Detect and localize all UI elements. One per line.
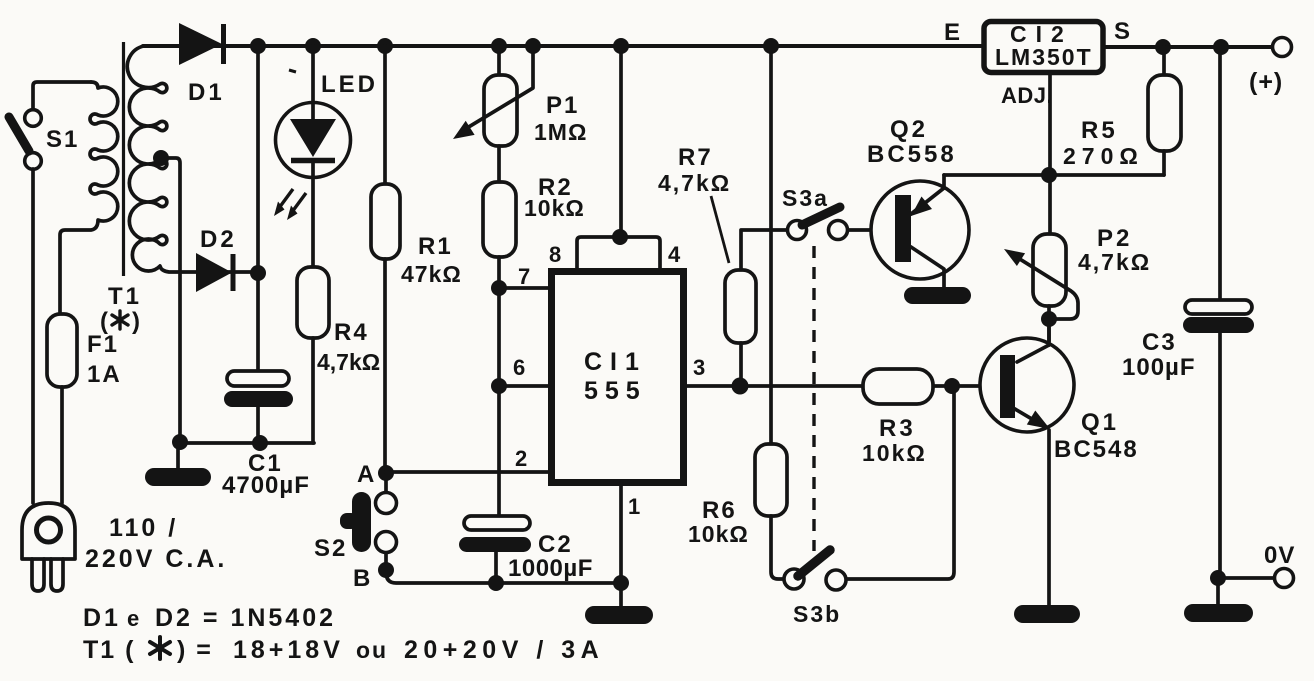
- wire CI2 output rail: [1103, 45, 1272, 49]
- resistor R7: [725, 230, 788, 386]
- node pin6: [491, 378, 507, 394]
- svg-text:0V: 0V: [1264, 542, 1295, 569]
- svg-text:S3a: S3a: [782, 185, 829, 211]
- svg-text:555: 555: [584, 377, 647, 405]
- node P2/Q1 collector: [1041, 311, 1057, 327]
- wire R2 down to C2: [497, 257, 501, 516]
- transformer core: [122, 42, 125, 276]
- ground (pin 1): [585, 606, 653, 624]
- wire rail to R1: [383, 46, 387, 184]
- node rail/LED: [305, 38, 321, 54]
- capacitor C2: [459, 516, 531, 583]
- wire node A to pin 2: [386, 470, 551, 474]
- leader line R7: [711, 196, 729, 263]
- wire rail to C3: [1218, 47, 1222, 300]
- wire Q2 emitter to R5 bottom: [944, 173, 1164, 177]
- node rail/C3: [1213, 39, 1229, 55]
- svg-text:D2 = 1N5402: D2 = 1N5402: [155, 604, 336, 632]
- switch S3b: [784, 550, 846, 590]
- wire S1 bottom to plug: [31, 169, 35, 503]
- potentiometer P1: [453, 46, 533, 146]
- svg-text:R6: R6: [702, 497, 737, 524]
- node A: [378, 465, 394, 481]
- svg-text:R4: R4: [334, 319, 369, 346]
- svg-text:D1: D1: [83, 604, 121, 632]
- transistor Q2 BC558: [871, 175, 969, 287]
- dashed mechanical link S3a-S3b: [812, 246, 815, 551]
- resistor R4: [297, 267, 329, 338]
- svg-text:S: S: [1114, 18, 1130, 45]
- diode D1: [179, 23, 224, 65]
- svg-text:S2: S2: [314, 535, 347, 562]
- svg-text:47kΩ: 47kΩ: [401, 261, 462, 287]
- svg-text:LM350T: LM350T: [995, 44, 1093, 70]
- wire center tap to ground: [161, 158, 180, 441]
- note line 1: D1 e D2 = 1N5402: [83, 604, 336, 632]
- svg-text:1000µF: 1000µF: [508, 555, 593, 582]
- svg-text:8: 8: [549, 242, 561, 267]
- svg-text:1: 1: [628, 494, 640, 519]
- svg-text:R1: R1: [418, 233, 453, 260]
- wire node B to pin1 ground: [386, 572, 621, 583]
- node rail/IC supply: [613, 38, 629, 54]
- ground (output): [1184, 604, 1253, 622]
- wire S1 to transformer primary top: [33, 82, 91, 111]
- node R3/Q1 base/S3b: [944, 378, 960, 394]
- node C2/bottom wire: [488, 575, 504, 591]
- svg-text:ou: ou: [356, 637, 388, 663]
- svg-text:) =: ) =: [177, 636, 213, 664]
- wire R4 to ground bus: [311, 338, 315, 443]
- svg-text:20+20V / 3A: 20+20V / 3A: [404, 636, 604, 664]
- svg-text:4,7kΩ: 4,7kΩ: [317, 349, 380, 375]
- wire rail to P1: [497, 46, 501, 75]
- svg-text:Q1: Q1: [1081, 409, 1119, 436]
- svg-text:6: 6: [513, 355, 525, 380]
- switch S1: [9, 110, 41, 170]
- note line 2: T1 (*) = 18+18V ou 20+20V / 3A: [83, 636, 604, 664]
- node C3/0V: [1210, 570, 1226, 586]
- svg-text:R5: R5: [1081, 117, 1118, 144]
- node rail/R1: [377, 38, 393, 54]
- svg-text:4,7kΩ: 4,7kΩ: [658, 170, 731, 196]
- svg-text:3: 3: [693, 355, 705, 380]
- node pin7: [491, 280, 507, 296]
- node rail/R5: [1155, 39, 1171, 55]
- svg-text:(+): (+): [1249, 68, 1283, 96]
- ground (Q2): [904, 287, 971, 304]
- svg-text:CI1: CI1: [584, 348, 647, 376]
- wire C3 to ground: [1216, 578, 1220, 605]
- wire pin 3 to Q1 base: [684, 384, 1003, 388]
- svg-text:1MΩ: 1MΩ: [534, 119, 587, 145]
- svg-text:110 /: 110 /: [109, 514, 178, 542]
- node ADJ/emitter wire: [1041, 167, 1057, 183]
- svg-text:2: 2: [515, 446, 527, 471]
- wire ground stem: [176, 443, 180, 469]
- node B: [378, 562, 394, 578]
- svg-text:4,7kΩ: 4,7kΩ: [1078, 249, 1151, 275]
- ground (Q1): [1014, 605, 1080, 623]
- wire pin 1 to ground: [619, 484, 623, 606]
- wire R6 to S3b: [771, 516, 783, 579]
- transistor Q1 BC548: [980, 338, 1074, 432]
- transformer T1 primary winding: [60, 82, 118, 314]
- svg-text:B: B: [353, 565, 370, 592]
- terminal 0V: [1275, 569, 1294, 588]
- svg-text:D1: D1: [188, 79, 225, 106]
- AC plug: [22, 503, 75, 591]
- svg-text:Q2: Q2: [890, 116, 928, 143]
- wire P1 to R2: [497, 146, 501, 182]
- svg-text:10kΩ: 10kΩ: [524, 195, 585, 221]
- node C1/ground bus: [252, 435, 268, 451]
- svg-text:A: A: [357, 461, 374, 488]
- node: tap/ground junction: [172, 434, 188, 450]
- svg-text:): ): [132, 308, 141, 335]
- wire rail down to R6: [769, 46, 773, 444]
- wire fuse to plug: [60, 387, 64, 503]
- svg-text:T1: T1: [108, 283, 142, 310]
- svg-text:e: e: [127, 606, 142, 631]
- potentiometer P2: [1004, 234, 1078, 319]
- wire Q1 collector stem: [1047, 319, 1051, 345]
- node R7/pin3: [732, 378, 749, 395]
- svg-text:R7: R7: [678, 144, 713, 171]
- terminal (+): [1273, 38, 1292, 57]
- wire Q1 emitter to ground: [1047, 430, 1051, 606]
- switch S3a: [788, 207, 848, 240]
- svg-text:C3: C3: [1142, 329, 1177, 356]
- wire ADJ: [1048, 72, 1052, 234]
- node rail/P1 wiper: [525, 38, 541, 54]
- node D2/C1 wire: [250, 265, 266, 281]
- resistor R6: [755, 444, 787, 516]
- wire top rail (+V from rectifier): [143, 44, 981, 48]
- svg-text:S1: S1: [46, 126, 79, 153]
- capacitor C3: [1183, 300, 1254, 578]
- switch S2: [340, 481, 397, 562]
- resistor R1: [371, 184, 400, 259]
- wire 0V terminal: [1218, 576, 1273, 580]
- IC CI1 555: [552, 272, 684, 483]
- svg-text:1A: 1A: [87, 361, 122, 388]
- svg-text:270Ω: 270Ω: [1063, 143, 1144, 169]
- wire R1 to node A: [383, 259, 387, 466]
- svg-text:(: (: [100, 308, 109, 335]
- ground (transformer): [145, 468, 211, 486]
- LED light arrows: [274, 189, 306, 220]
- capacitor C1: [224, 371, 293, 443]
- LED: [276, 103, 351, 178]
- resistor R5: [1148, 47, 1181, 175]
- node rail/C1: [250, 38, 266, 54]
- svg-text:220V C.A.: 220V C.A.: [85, 545, 227, 573]
- wire rail to bracket: [619, 46, 623, 237]
- node pin1/B wire: [613, 575, 629, 591]
- svg-text:T1 (: T1 (: [83, 636, 135, 664]
- svg-text:BC558: BC558: [867, 141, 957, 168]
- svg-text:P2: P2: [1097, 225, 1132, 252]
- node rail/P1: [491, 38, 507, 54]
- wire rail to LED: [311, 46, 315, 104]
- svg-text:7: 7: [518, 264, 530, 289]
- wire pin 6: [499, 384, 551, 388]
- fuse F1: [47, 314, 77, 387]
- svg-text:4700µF: 4700µF: [222, 472, 310, 499]
- svg-text:F1: F1: [87, 331, 119, 358]
- node: secondary center tap: [153, 150, 169, 166]
- svg-text:10kΩ: 10kΩ: [688, 521, 749, 547]
- svg-text:10kΩ: 10kΩ: [862, 440, 927, 466]
- svg-text:S3b: S3b: [793, 601, 841, 627]
- svg-text:E: E: [944, 19, 960, 46]
- svg-text:4: 4: [668, 242, 681, 267]
- diode D2: [196, 253, 258, 292]
- resistor R2: [483, 182, 516, 257]
- wire P2 bottom to Q1 collector: [1047, 306, 1051, 341]
- IC CI2 LM350T: [984, 21, 1103, 73]
- node bracket: [612, 229, 628, 245]
- svg-text:D2: D2: [200, 226, 237, 253]
- svg-text:P1: P1: [546, 92, 579, 119]
- wire +rail to C1: [256, 46, 260, 371]
- svg-text:ADJ.: ADJ.: [1001, 83, 1053, 108]
- svg-text:18+18V: 18+18V: [233, 636, 344, 664]
- wire bottom ground bus: [178, 441, 314, 445]
- wire pins 8-4 bracket: [577, 237, 660, 268]
- svg-text:C2: C2: [538, 531, 573, 558]
- wire S3a to Q2 base: [848, 228, 896, 232]
- wire S3b to R3/Q1 node: [847, 386, 954, 579]
- transformer T1 secondary winding: [127, 46, 197, 272]
- svg-text:100µF: 100µF: [1122, 354, 1196, 381]
- wire LED to R4: [311, 177, 315, 267]
- svg-text:LED: LED: [321, 71, 378, 98]
- wire pin 7: [499, 286, 551, 290]
- node rail/R6 feed: [763, 38, 779, 54]
- stray mark: [289, 70, 296, 72]
- svg-text:R3: R3: [879, 415, 916, 442]
- resistor R3: [863, 369, 933, 404]
- svg-text:BC548: BC548: [1054, 436, 1139, 463]
